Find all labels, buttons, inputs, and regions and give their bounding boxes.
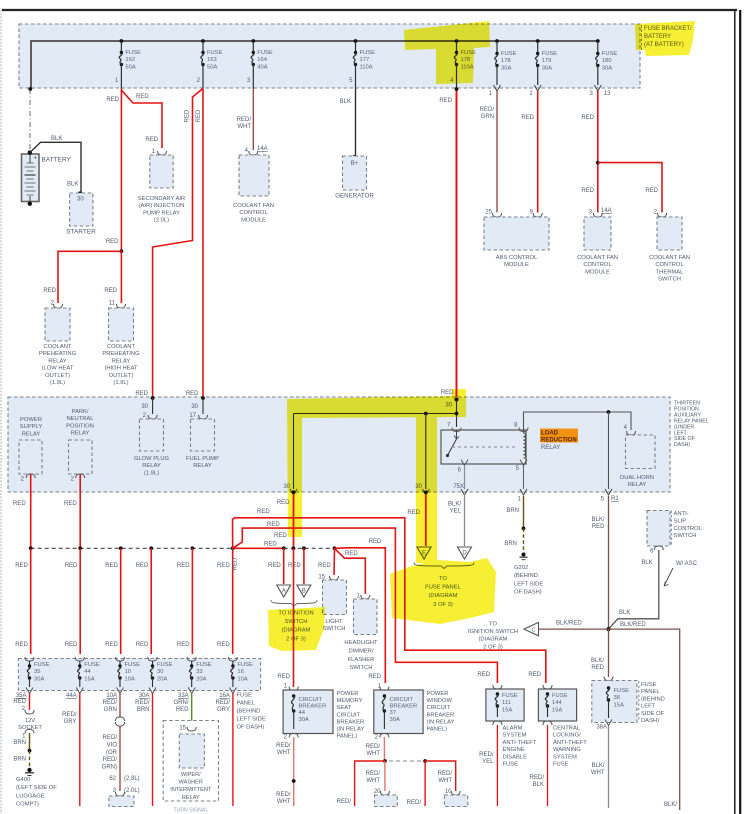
fuse 180 30A (596, 39, 600, 43)
junction load reduction feed (455, 412, 459, 416)
svg-text:FUSE: FUSE (207, 50, 223, 56)
svg-text:10A: 10A (125, 676, 135, 682)
svg-text:16A: 16A (219, 693, 230, 699)
svg-text:RED: RED (65, 563, 78, 569)
page border right outer (739, 10, 741, 814)
svg-text:BLK/: BLK/ (664, 802, 677, 808)
svg-text:(2.8L): (2.8L) (124, 776, 140, 782)
svg-text:B+: B+ (351, 161, 359, 167)
wire BLK anti-slip to junction (609, 550, 659, 629)
svg-text:PANEL): PANEL) (427, 727, 448, 733)
svg-text:CIRCUIT: CIRCUIT (299, 697, 323, 703)
svg-text:30A: 30A (139, 693, 150, 699)
svg-text:IGNITION SWITCH: IGNITION SWITCH (468, 629, 518, 635)
svg-text:FUSE: FUSE (125, 662, 141, 668)
svg-text:2 OF 3): 2 OF 3) (483, 644, 503, 650)
svg-text:(BEHIND: (BEHIND (514, 573, 538, 579)
svg-text:POSITION: POSITION (66, 423, 94, 429)
svg-text:DASH): DASH) (674, 442, 690, 448)
svg-text:RED/: RED/ (530, 775, 545, 781)
svg-text:RED: RED (581, 188, 594, 194)
svg-text:WHT: WHT (366, 778, 380, 784)
exit 5 R1 (605, 489, 612, 495)
svg-text:BLK/RED: BLK/RED (556, 621, 582, 627)
svg-text:SYSTEM: SYSTEM (553, 754, 577, 760)
svg-text:BLK/: BLK/ (591, 763, 604, 769)
highlight over TO IGNITION SWITCH note (268, 607, 325, 651)
svg-text:FUSE: FUSE (614, 688, 630, 694)
coolant fan control module (upper) (239, 155, 269, 196)
svg-text:33: 33 (196, 669, 202, 675)
svg-text:30: 30 (157, 669, 163, 675)
svg-text:SOCKET: SOCKET (18, 725, 42, 731)
svg-text:SEAT: SEAT (337, 705, 352, 711)
svg-text:RED: RED (264, 542, 277, 548)
svg-text:NEUTRAL: NEUTRAL (66, 416, 94, 422)
svg-text:CIRCUIT: CIRCUIT (427, 705, 451, 711)
svg-text:POWER: POWER (20, 417, 42, 423)
svg-text:RED: RED (345, 551, 358, 557)
fuse 163 50A (201, 39, 205, 43)
wire RED fuse 163 to fuel pump relay (202, 89, 204, 397)
svg-text:15A: 15A (614, 702, 624, 708)
svg-text:COOLANT: COOLANT (107, 344, 135, 350)
headlight dimmer/flasher switch (354, 599, 378, 635)
svg-text:RED: RED (274, 533, 287, 539)
svg-text:(LEFT SIDE OF: (LEFT SIDE OF (16, 785, 57, 791)
svg-text:OUTLET): OUTLET) (109, 373, 134, 379)
svg-text:FUSE: FUSE (125, 50, 141, 56)
svg-text:RED/: RED/ (480, 107, 495, 113)
page border top (2, 9, 737, 11)
svg-text:(1.9L): (1.9L) (144, 470, 159, 476)
svg-text:DISABLE: DISABLE (503, 754, 528, 760)
svg-text:CONTROL: CONTROL (674, 526, 703, 532)
fuse 30 20A (148, 657, 157, 661)
svg-text:CONTROL: CONTROL (239, 210, 268, 216)
svg-text:(AIR) INJECTION: (AIR) INJECTION (139, 203, 185, 209)
svg-text:SIDE OF: SIDE OF (641, 711, 665, 717)
generator (353, 155, 357, 159)
relay coil (524, 433, 526, 458)
svg-text:COOLANT FAN: COOLANT FAN (649, 255, 690, 261)
svg-text:BATTERY: BATTERY (42, 157, 72, 164)
svg-text:DIMMER/: DIMMER/ (348, 648, 374, 654)
svg-text:SWITCH: SWITCH (350, 665, 373, 671)
svg-text:BLK/RED: BLK/RED (620, 622, 646, 628)
svg-text:(BEHIND: (BEHIND (237, 709, 261, 715)
wire RED load reduction exit 30 mid to triangle E (425, 494, 427, 546)
fuse 177 110A (354, 39, 358, 43)
svg-text:(2.0L): (2.0L) (154, 218, 169, 224)
svg-text:180: 180 (602, 58, 612, 64)
node 30 entry of load reduction feed (455, 398, 459, 402)
wire pin8 to dual horn relay (524, 412, 632, 432)
page border left (0, 10, 2, 814)
svg-text:PANEL: PANEL (237, 701, 256, 707)
svg-text:RED: RED (106, 239, 119, 245)
svg-text:YEL: YEL (482, 759, 494, 765)
svg-text:RED/: RED/ (337, 799, 352, 805)
wire RED bus to triangle B (303, 548, 305, 584)
fuse panel (behind left side of dash) (18, 659, 260, 691)
svg-text:37: 37 (390, 710, 396, 716)
svg-text:RED/: RED/ (103, 700, 118, 706)
relay linkage dashes (452, 446, 516, 448)
svg-text:RED: RED (145, 137, 158, 143)
svg-text:RED/: RED/ (366, 771, 381, 777)
svg-text:LOCKING/: LOCKING/ (553, 733, 581, 739)
svg-text:PANEL): PANEL) (337, 734, 358, 740)
svg-text:BLK: BLK (67, 182, 78, 188)
svg-text:(2.0L): (2.0L) (124, 788, 140, 794)
svg-text:BLK: BLK (533, 782, 544, 788)
svg-text:FUSE: FUSE (641, 682, 657, 688)
svg-text:LOAD: LOAD (541, 431, 559, 437)
svg-text:MODULE: MODULE (504, 262, 529, 268)
fuse 162 50A (120, 39, 124, 43)
wire BLK/RED exit 5 down (608, 496, 610, 629)
svg-text:RELAY: RELAY (182, 795, 200, 801)
svg-text:RED: RED (136, 642, 149, 648)
svg-text:RED: RED (369, 539, 382, 545)
wire RED fuse 35 to 12V socket (29, 693, 31, 710)
svg-text:GLOW PLUG: GLOW PLUG (134, 456, 170, 462)
svg-text:RED: RED (267, 522, 280, 528)
wire RED/YEL fuse 111 down (496, 725, 498, 806)
svg-text:RELAY: RELAY (193, 463, 212, 469)
svg-text:BRN: BRN (506, 508, 519, 514)
svg-text:COMPT): COMPT) (16, 802, 39, 808)
svg-text:COOLANT FAN: COOLANT FAN (233, 203, 274, 209)
svg-text:G202: G202 (514, 565, 528, 571)
svg-text:(1.9L): (1.9L) (113, 380, 128, 386)
svg-text:C: C (532, 628, 536, 634)
svg-text:38A: 38A (596, 725, 607, 731)
svg-text:75X: 75X (453, 484, 464, 490)
svg-text:SLIP: SLIP (674, 518, 687, 524)
svg-text:BRN: BRN (13, 740, 26, 746)
wire RED fuse 162 down (120, 89, 122, 252)
svg-text:OUTLET): OUTLET) (45, 373, 70, 379)
load reduction relay (441, 430, 526, 464)
svg-text:RED: RED (645, 188, 658, 194)
svg-text:(BEHIND: (BEHIND (641, 696, 665, 702)
svg-text:RED: RED (64, 501, 77, 507)
svg-text:PREHEATING: PREHEATING (102, 351, 140, 357)
svg-text:CENTRAL: CENTRAL (553, 726, 581, 732)
wire RED fuse 179 to ABS pin 9 (537, 91, 539, 213)
battery (22, 154, 40, 202)
svg-text:RED/: RED/ (62, 712, 77, 718)
svg-text:B: B (302, 589, 306, 595)
svg-text:WASHER: WASHER (179, 780, 203, 786)
svg-text:RELAY: RELAY (541, 445, 560, 451)
svg-text:30A: 30A (501, 65, 511, 71)
svg-text:13: 13 (604, 91, 611, 97)
svg-text:COOLANT FAN: COOLANT FAN (577, 255, 618, 261)
svg-text:BREAKER: BREAKER (299, 704, 327, 710)
wire RED/BRN fuse 30 down (152, 693, 154, 806)
svg-text:GENERATOR: GENERATOR (335, 193, 374, 200)
svg-text:RED: RED (368, 674, 381, 680)
svg-text:VIO: VIO (107, 742, 118, 748)
svg-text:BRN: BRN (13, 757, 26, 763)
svg-text:(OR: (OR (106, 750, 118, 756)
svg-text:+: + (34, 156, 38, 162)
svg-text:POWER: POWER (427, 691, 449, 697)
svg-text:30A: 30A (390, 717, 400, 723)
svg-text:CONTROL: CONTROL (583, 262, 612, 268)
svg-text:RED: RED (65, 642, 78, 648)
wire RED fuse 162 branch to secondary air relay (121, 90, 162, 148)
svg-text:RED: RED (106, 97, 119, 103)
svg-text:(DIAGRAM: (DIAGRAM (479, 637, 508, 643)
wire RED/BLK fuse 144 down (547, 725, 549, 806)
junction fuse 180 branch (596, 161, 600, 165)
partial box at page bottom (116, 792, 125, 796)
svg-text:RED: RED (196, 109, 202, 122)
svg-text:30A: 30A (602, 65, 612, 71)
svg-text:RED: RED (277, 674, 290, 680)
svg-text:RELAY: RELAY (22, 431, 41, 437)
svg-text:ALARM: ALARM (503, 726, 523, 732)
fuse 16 10A (228, 657, 237, 661)
svg-text:RED: RED (268, 563, 281, 569)
svg-text:A: A (282, 589, 286, 595)
exit connector of fuse 180 (594, 85, 601, 91)
svg-text:COOLANT: COOLANT (43, 344, 71, 350)
svg-text:MODULE: MODULE (241, 217, 266, 223)
wire RED bus to circuit breaker 37 (335, 548, 386, 683)
svg-text:15A: 15A (552, 707, 562, 713)
highlight over fuse bracket label (635, 21, 695, 56)
svg-text:FUSE: FUSE (542, 51, 558, 57)
svg-text:30: 30 (141, 404, 148, 410)
svg-text:MEMORY: MEMORY (337, 698, 363, 704)
svg-text:HEADLIGHT: HEADLIGHT (344, 640, 378, 646)
wire BLK/RED junction to right border (609, 629, 680, 810)
svg-text:15A: 15A (84, 676, 94, 682)
svg-text:38: 38 (614, 695, 620, 701)
wire BLK fuse 177 to generator (355, 89, 357, 157)
fuse 10 10A (116, 657, 125, 661)
svg-text:RED: RED (233, 557, 239, 570)
brace under E D (414, 563, 474, 569)
svg-text:FUSE: FUSE (602, 51, 618, 57)
svg-text:TURN SIGNAL: TURN SIGNAL (173, 808, 208, 814)
svg-text:INTERMITTENT: INTERMITTENT (170, 787, 212, 793)
svg-text:RED: RED (477, 672, 490, 678)
svg-text:PREHEATING: PREHEATING (39, 351, 77, 357)
wire RED to coolant preheating relay low heat (58, 251, 121, 303)
ground G400 (27, 768, 31, 772)
svg-text:164: 164 (257, 57, 267, 63)
svg-text:WHT: WHT (438, 778, 452, 784)
svg-text:30A: 30A (299, 717, 309, 723)
svg-text:17: 17 (189, 413, 196, 419)
svg-text:PANEL: PANEL (641, 689, 660, 695)
svg-text:RED: RED (581, 115, 594, 121)
svg-text:(1.9L): (1.9L) (50, 380, 65, 386)
svg-text:R1: R1 (611, 496, 619, 502)
svg-text:110A: 110A (360, 64, 373, 70)
svg-text:RED: RED (176, 707, 189, 713)
wire RED bus to circuit breaker 44 (293, 548, 295, 687)
svg-text:50A: 50A (207, 64, 217, 70)
junction pin8 net (607, 410, 611, 414)
wire BLK/YEL 75X exit to triangle D (464, 494, 466, 546)
exit 1 BRN (520, 489, 527, 495)
exit connector of fuse 178 (494, 85, 501, 91)
svg-text:WHT: WHT (277, 799, 291, 805)
svg-text:44: 44 (299, 710, 306, 716)
wire RED/WHT breaker 37 down (383, 737, 385, 761)
svg-text:DUAL HORN: DUAL HORN (620, 475, 654, 481)
svg-text:RED: RED (591, 665, 604, 671)
coolant preheating relay (low heat) (45, 308, 70, 341)
starter (78, 191, 82, 195)
svg-text:FUSE: FUSE (501, 51, 517, 57)
fuse 178 110A (455, 39, 459, 43)
svg-text:RED: RED (104, 288, 117, 294)
svg-text:RELAY: RELAY (112, 358, 131, 364)
svg-text:RED: RED (257, 509, 270, 515)
coolant fan control module (right) (584, 217, 611, 250)
svg-text:W/ ASC: W/ ASC (676, 561, 698, 567)
svg-text:G400: G400 (16, 777, 30, 783)
svg-text:30: 30 (77, 197, 84, 203)
bus wire in fuse bracket (31, 41, 599, 89)
svg-text:RELAY: RELAY (48, 358, 67, 364)
fuse bracket box (at battery) (19, 24, 640, 88)
wire RED load reduction exit 30 left (293, 494, 295, 548)
fuse 178 30A (495, 39, 499, 43)
svg-text:RED/: RED/ (276, 743, 291, 749)
svg-text:16: 16 (237, 669, 243, 675)
exit connector of fuse 179 (534, 85, 541, 91)
wire RED/WHT to 10 box (425, 761, 456, 791)
wire RED/GRN fuse 178 30A to ABS pin 25 (496, 91, 498, 213)
svg-text:25: 25 (485, 210, 492, 216)
svg-text:FUSE: FUSE (553, 762, 569, 768)
svg-text:RED: RED (13, 501, 26, 507)
wire GRN/RED fuse 33 to wiper relay (191, 693, 193, 724)
wire RED branch to thermal switch (598, 163, 662, 213)
svg-text:BLK: BLK (340, 99, 351, 105)
svg-text:178: 178 (501, 58, 511, 64)
anti-slip control switch (647, 511, 670, 547)
page border right inner (734, 10, 736, 814)
ABS control module (484, 217, 549, 250)
svg-text:PUMP RELAY: PUMP RELAY (143, 210, 180, 216)
svg-text:ABS CONTROL: ABS CONTROL (496, 255, 538, 261)
svg-text:RELAY: RELAY (142, 463, 161, 469)
svg-text:ANTI-: ANTI- (674, 511, 689, 517)
svg-text:44A: 44A (66, 693, 77, 699)
wire RED/WHT breaker 44 down (293, 737, 295, 806)
svg-text:RED/: RED/ (438, 771, 453, 777)
svg-text:BRN: BRN (137, 707, 150, 713)
svg-text:FUSE: FUSE (257, 50, 273, 56)
glow plug relay (151, 396, 155, 400)
svg-text:GRN/: GRN/ (174, 700, 189, 706)
wire RED/GRY fuse 16 down (232, 693, 234, 806)
junction fuse162 wire (120, 249, 124, 253)
svg-text:BRN: BRN (504, 541, 517, 547)
svg-text:SUPPLY: SUPPLY (20, 424, 43, 430)
svg-text:GRN): GRN) (102, 765, 117, 771)
svg-text:WHT: WHT (277, 750, 291, 756)
svg-text:RED: RED (105, 642, 118, 648)
svg-text:(IN RELAY: (IN RELAY (427, 719, 455, 725)
highlight over bus and fuse 178 (404, 21, 490, 84)
bracket label dashes (641, 25, 643, 50)
svg-text:111: 111 (502, 700, 511, 706)
wire RED to coolant preheating relay high heat (120, 251, 122, 303)
svg-text:ANTI-THEFT: ANTI-THEFT (553, 740, 587, 746)
svg-text:BREAKER: BREAKER (390, 704, 418, 710)
svg-text:GRY: GRY (217, 707, 230, 713)
svg-text:BREAKER: BREAKER (427, 712, 455, 718)
bus solid red segment (233, 547, 284, 549)
inline connector fuse 10 wire (116, 717, 125, 721)
svg-text:20A: 20A (196, 676, 206, 682)
svg-text:POWER: POWER (337, 691, 359, 697)
svg-text:163: 163 (207, 57, 217, 63)
highlight over TO FUSE PANEL note (390, 558, 496, 624)
svg-text:WHT: WHT (237, 124, 251, 130)
svg-text:SWITCH: SWITCH (323, 626, 346, 632)
svg-text:RED/: RED/ (135, 700, 150, 706)
svg-text:WHT: WHT (366, 751, 380, 757)
svg-text:D: D (462, 551, 467, 557)
svg-text:179: 179 (542, 58, 552, 64)
wire RED/WHT fuse 164 to coolant fan control module (252, 89, 254, 151)
svg-text:FUSE: FUSE (237, 662, 253, 668)
wire black entry to pin 7 (456, 400, 458, 428)
svg-text:TO: TO (489, 622, 497, 628)
svg-text:14A: 14A (257, 146, 268, 152)
svg-text:44: 44 (84, 669, 91, 675)
svg-text:CONTROL: CONTROL (655, 262, 684, 268)
wire RED fuse 180 down (597, 91, 599, 213)
svg-text:FUSE: FUSE (503, 762, 519, 768)
wire BLK battery to starter (30, 142, 81, 193)
wire BLK/RED junction to ignition arrow (539, 628, 609, 630)
wire BRN exit 1 to G202 (523, 496, 525, 528)
bus wires down to fuse panel (30, 548, 32, 654)
coolant fan control thermal switch (657, 217, 682, 250)
wiper/washer intermittent relay (179, 734, 204, 768)
svg-text:RED: RED (592, 524, 605, 530)
svg-text:ANTI-THEFT: ANTI-THEFT (503, 740, 537, 746)
svg-text:FUSE: FUSE (34, 662, 50, 668)
svg-text:15: 15 (179, 726, 186, 732)
thirteen position auxiliary relay panel (8, 397, 670, 492)
fuel pump relay (201, 396, 205, 400)
svg-text:LIGHT: LIGHT (325, 619, 343, 625)
svg-text:12V: 12V (25, 718, 35, 724)
svg-text:CIRCUIT: CIRCUIT (337, 712, 361, 718)
wire RED fuse 163 to glow plug relay (153, 89, 203, 397)
ground G202 (522, 553, 526, 557)
svg-text:SECONDARY AIR: SECONDARY AIR (138, 196, 185, 202)
svg-text:LEFT: LEFT (641, 704, 656, 710)
wire RED down from bus (424, 761, 426, 806)
svg-text:10A: 10A (237, 676, 247, 682)
svg-text:FUSE: FUSE (237, 693, 253, 699)
